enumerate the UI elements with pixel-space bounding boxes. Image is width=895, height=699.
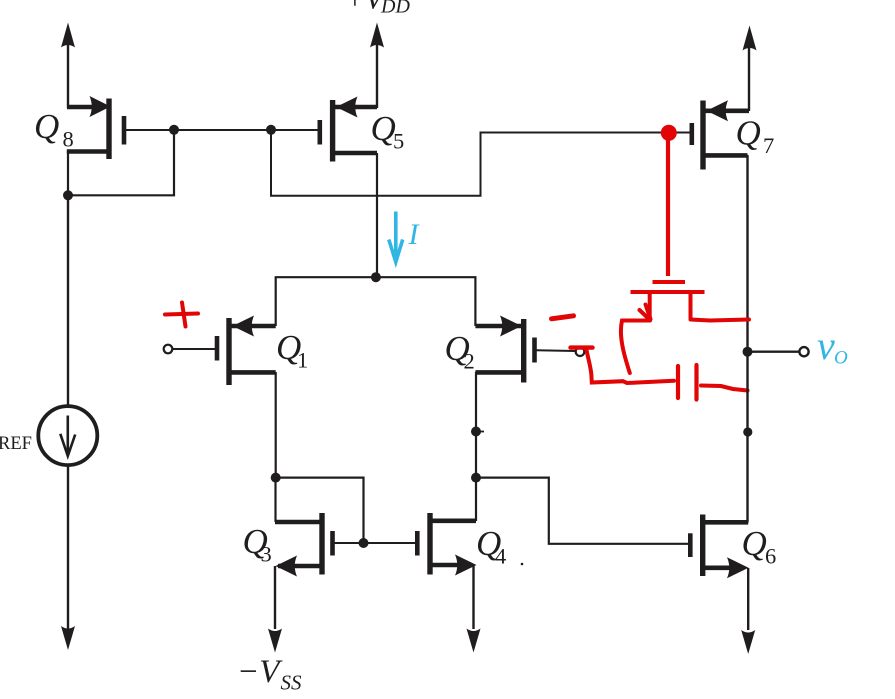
red dot on Q7 gate wire bbox=[661, 125, 677, 141]
node dot on output rail bbox=[743, 427, 752, 436]
transistor Q3 bbox=[275, 513, 333, 577]
tail node wire (sources of Q1,Q2) bbox=[276, 277, 476, 326]
wire: Q2 drain down bbox=[475, 372, 477, 478]
wire: Q8 gate to Q5 gate (bias line) bbox=[122, 129, 320, 131]
wire: left rail down to IREF bbox=[67, 195, 69, 406]
VDD rail arrow (left, above Q8) bbox=[61, 23, 75, 109]
svg-text:Q: Q bbox=[371, 109, 396, 148]
wire: Q4 source down to -VSS arrow bbox=[467, 565, 481, 653]
wire: Q3 drain up to mirror node bbox=[274, 478, 276, 522]
label Q3 bbox=[243, 522, 272, 567]
svg-text:1: 1 bbox=[297, 348, 308, 373]
node dot Q1 drain / Q3 drain bbox=[271, 473, 281, 483]
red dash over Q2 input circle bbox=[571, 345, 593, 349]
red minus annotation (input -) bbox=[552, 316, 574, 319]
red sketched transistor: gate bar bbox=[653, 280, 686, 284]
transistor Q5 bbox=[320, 97, 377, 162]
svg-text:O: O bbox=[834, 348, 848, 369]
output node dot vO bbox=[743, 347, 753, 357]
label Q7 bbox=[736, 114, 775, 159]
node dot on gate line (left) bbox=[169, 125, 179, 135]
svg-text:REF: REF bbox=[0, 434, 32, 454]
wire: Q1 drain down to mirror node bbox=[275, 372, 277, 478]
svg-text:SS: SS bbox=[281, 671, 303, 695]
svg-text:4: 4 bbox=[495, 544, 506, 569]
output terminal circle bbox=[799, 347, 808, 356]
wire: Q6 source down to -VSS arrow bbox=[741, 568, 755, 654]
red capacitor left plate bbox=[676, 366, 680, 398]
wire: Q2 gate to input circle bbox=[536, 349, 576, 352]
svg-text:I: I bbox=[408, 218, 421, 251]
wire: Q8 drain loop down-right-up to gate line bbox=[68, 130, 174, 195]
red plus annotation (input +) bbox=[165, 303, 198, 327]
svg-text:5: 5 bbox=[393, 129, 404, 154]
transistor Q8 bbox=[67, 96, 124, 159]
node dot (stub) on Q2 drain bbox=[471, 427, 484, 437]
node dot on gate line (right) bbox=[266, 125, 276, 135]
label Q2 bbox=[445, 329, 475, 374]
label -VSS bbox=[237, 654, 302, 695]
red sketched transistor: channel bar bbox=[631, 290, 705, 294]
svg-text:8: 8 bbox=[63, 127, 74, 152]
svg-text:6: 6 bbox=[765, 544, 776, 569]
wire: Q7 drain down to output node bbox=[746, 155, 748, 352]
wire: Q2 drain node to Q6 gate bbox=[476, 478, 689, 544]
svg-text:Q: Q bbox=[742, 524, 767, 563]
red wire: down from circle to cap bbox=[586, 349, 674, 383]
red capacitor right plate bbox=[694, 365, 698, 400]
wire: Q3 source down to -VSS arrow bbox=[268, 566, 282, 653]
svg-text:−V: −V bbox=[237, 654, 283, 690]
stray speck bbox=[521, 563, 524, 566]
svg-text:Q: Q bbox=[34, 107, 59, 146]
red sketched transistor: right (drain) leg bbox=[689, 293, 693, 318]
transistor Q7 bbox=[692, 100, 749, 169]
red wire: source leg left then wavy down bbox=[621, 321, 650, 374]
+VDD label (clipped at top) bbox=[345, 0, 411, 17]
wire: Q5 drain down to tail node bbox=[376, 153, 378, 277]
node dot Q2 drain / Q4 drain bbox=[471, 473, 481, 483]
wire: IREF to -VSS arrow (left rail bottom) bbox=[61, 465, 75, 650]
label vO (cyan) bbox=[817, 323, 848, 369]
red sketched transistor: left (source) leg with arrow bbox=[640, 293, 651, 320]
label Q1 bbox=[276, 328, 308, 373]
transistor Q1 bbox=[217, 316, 276, 386]
current source IREF bbox=[38, 406, 97, 465]
node dot tail bbox=[371, 272, 381, 282]
node dot at Q8 drain / left rail bbox=[63, 190, 73, 200]
transistor Q6 bbox=[690, 515, 748, 579]
input terminal circle (Q2 gate) bbox=[576, 347, 585, 356]
input terminal circle (Q1 gate) bbox=[164, 345, 173, 354]
VDD rail arrow (above Q7) bbox=[743, 26, 757, 112]
label Q8 bbox=[34, 107, 74, 152]
svg-text:v: v bbox=[817, 323, 835, 368]
wire: output node to terminal bbox=[748, 351, 800, 353]
wire: bias line to Q7 gate (down, right, up, right) bbox=[271, 130, 690, 196]
label Q4 bbox=[476, 524, 506, 569]
label Q5 bbox=[371, 109, 405, 154]
VDD rail arrow (above Q5) bbox=[370, 23, 384, 109]
node dot on Q3/Q4 gate line bbox=[359, 538, 369, 548]
svg-text:3: 3 bbox=[261, 542, 272, 567]
transistor Q2 bbox=[475, 316, 534, 383]
wire: input to Q1 gate bbox=[173, 348, 217, 350]
wire: Q4 drain up to node bbox=[475, 478, 477, 521]
transistor Q4 bbox=[417, 513, 476, 576]
current arrow I (cyan) bbox=[389, 212, 403, 263]
wire: output rail down to Q6 bbox=[746, 352, 748, 523]
red wire down from dot bbox=[666, 138, 670, 276]
svg-text:7: 7 bbox=[763, 133, 774, 158]
svg-text:2: 2 bbox=[464, 349, 475, 374]
svg-text:Q: Q bbox=[736, 114, 761, 153]
red wire: drain leg to output rail bbox=[691, 320, 750, 321]
label Q6 bbox=[742, 524, 777, 569]
red wire: cap to output rail bbox=[701, 386, 748, 391]
wire: Q3/Q4 gate line bbox=[335, 542, 417, 544]
wire: diode connection to Q3 gate bbox=[276, 478, 364, 543]
svg-text:DD: DD bbox=[380, 0, 410, 17]
